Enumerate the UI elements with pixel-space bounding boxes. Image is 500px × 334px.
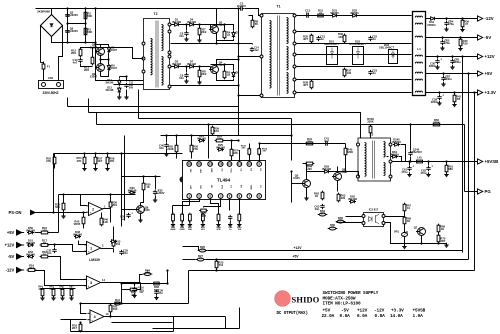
- capacitor: [316, 36, 320, 41]
- svg-text:R471K0: R471K0: [69, 286, 74, 291]
- wire bus +3.3V vertical: [474, 93, 476, 271]
- ground: [440, 46, 444, 50]
- transistor Q6: [334, 173, 342, 181]
- junction: [94, 152, 96, 154]
- diode: [351, 200, 355, 203]
- junction: [445, 17, 447, 19]
- wire to gnd r: [439, 243, 447, 245]
- wire drv top: [171, 24, 211, 26]
- wire C61 top: [409, 162, 411, 166]
- resistor R37: [343, 69, 346, 76]
- wire rail -12V: [297, 15, 412, 17]
- resistor R70: [437, 235, 440, 242]
- output +12V: [478, 54, 483, 59]
- wire C31 top: [452, 57, 454, 59]
- resistor R59: [211, 127, 214, 134]
- ground: [435, 65, 439, 69]
- comparator 1: [87, 242, 101, 255]
- wire R49 gnd: [182, 221, 184, 223]
- ground: [180, 222, 184, 226]
- wire to primary switch: [95, 9, 97, 43]
- wire in4: [48, 257, 76, 280]
- svg-text:-12V: -12V: [485, 16, 494, 21]
- svg-text:R36100: R36100: [338, 32, 343, 39]
- wire C25 top: [442, 38, 444, 40]
- junction: [79, 321, 81, 323]
- wire comp1 in-: [79, 241, 87, 245]
- wire rail 5a: [297, 66, 412, 68]
- wire R69-R70: [438, 232, 440, 236]
- wire comp4 in-: [81, 304, 87, 314]
- diode: [29, 255, 33, 258]
- svg-text:R704R7: R704R7: [440, 237, 445, 244]
- wire R23 top: [216, 260, 218, 262]
- wire R58 gnd: [107, 164, 109, 167]
- wire Q8 coll: [140, 203, 142, 207]
- junction: [142, 175, 144, 177]
- svg-text:R1322K: R1322K: [217, 134, 222, 141]
- svg-text:C24470u: C24470u: [448, 20, 454, 27]
- diode: [325, 170, 329, 173]
- svg-text:R63300: R63300: [340, 194, 345, 201]
- junction: [66, 41, 68, 43]
- resistor R5: [223, 71, 226, 78]
- wire R47 top: [71, 289, 73, 290]
- svg-text:R33510: R33510: [115, 240, 120, 247]
- resistor R65: [337, 220, 343, 223]
- wire bottom run2: [112, 322, 173, 324]
- wire R57 top: [95, 154, 97, 158]
- wire pin9 stub: [259, 155, 261, 162]
- junction: [62, 193, 64, 195]
- wire Q8 em: [140, 213, 142, 219]
- wire emitter rail top: [171, 43, 239, 45]
- resistor R66: [154, 282, 160, 285]
- wire to Q1: [96, 44, 101, 46]
- resistor: [172, 214, 175, 221]
- wire R54 top: [84, 154, 86, 158]
- capacitor: [119, 250, 123, 255]
- wire R56 top: [191, 136, 193, 146]
- wire v173 down: [173, 317, 175, 332]
- svg-text:R41220: R41220: [307, 137, 312, 144]
- wire R45 gnd: [172, 221, 174, 223]
- junction: [427, 160, 429, 162]
- wire out +5V: [426, 73, 478, 75]
- diode: [118, 81, 121, 85]
- svg-text:PG: PG: [485, 189, 492, 194]
- wire out +3.3V: [426, 92, 478, 94]
- svg-text:-12V: -12V: [374, 309, 385, 314]
- wire standby mid: [307, 172, 359, 177]
- output +5V: [478, 71, 483, 76]
- wire rail 5b: [297, 79, 412, 81]
- wire q8 top: [122, 176, 161, 178]
- resistor R13: [216, 139, 223, 142]
- svg-text:1: 1: [90, 247, 92, 251]
- svg-text:-12V: -12V: [6, 267, 15, 272]
- svg-text:+5V: +5V: [7, 230, 15, 235]
- diode: [107, 66, 110, 70]
- ground: [105, 166, 109, 170]
- capacitor: [437, 95, 441, 100]
- ground: [437, 101, 441, 105]
- junction: [473, 91, 475, 93]
- capacitor: [450, 59, 454, 64]
- wire R50 gnd: [189, 221, 191, 223]
- resistor R25: [201, 209, 207, 212]
- resistor R17: [41, 244, 48, 247]
- wire Q3 em rail: [216, 34, 218, 44]
- wire R57 gnd: [95, 164, 97, 167]
- wire res row top: [41, 288, 76, 290]
- svg-text:C4010n: C4010n: [159, 144, 164, 151]
- junction: [237, 84, 239, 86]
- wire Q4 base: [210, 67, 211, 70]
- resistor R13: [91, 57, 94, 64]
- wire v121b: [121, 284, 123, 304]
- svg-text:R193K3: R193K3: [29, 263, 34, 270]
- wire standby v0: [291, 136, 293, 161]
- svg-text:R45220K: R45220K: [347, 148, 353, 155]
- junction: [107, 58, 109, 60]
- resistor R46: [100, 218, 103, 225]
- svg-text:T2: T2: [154, 12, 158, 16]
- ground: [184, 37, 188, 41]
- resistor R19: [28, 269, 35, 272]
- wire T2 mid tap: [96, 48, 144, 59]
- wire emitter rail bot: [171, 85, 239, 87]
- diode: [395, 143, 399, 146]
- svg-text:C414n7: C414n7: [324, 137, 329, 144]
- ground: [402, 244, 406, 248]
- capacitor: [228, 215, 232, 220]
- svg-text:14.0A: 14.0A: [390, 314, 403, 319]
- output +5VSB: [478, 159, 483, 164]
- junction: [438, 91, 440, 93]
- wire R27 in: [183, 259, 196, 261]
- transformer T2: [144, 19, 170, 90]
- wire C40 bot: [166, 149, 168, 153]
- wire bridge top: [51, 9, 53, 15]
- svg-text:0.6A: 0.6A: [340, 314, 351, 319]
- svg-text:DC OTPUT(MAX): DC OTPUT(MAX): [277, 311, 308, 316]
- junction: [230, 139, 232, 141]
- wire out -12V: [426, 18, 478, 20]
- junction: [420, 242, 422, 244]
- wire bridge right down: [59, 26, 63, 81]
- svg-text:R591K0: R591K0: [214, 127, 219, 134]
- resistor R49: [130, 288, 137, 291]
- ground: [164, 152, 168, 156]
- transistor Q4: [211, 66, 219, 74]
- capacitor C6: [65, 29, 69, 34]
- bridge rectifier BD1: [41, 15, 63, 37]
- capacitor: [435, 59, 439, 64]
- wire bus +12V vertical: [462, 57, 464, 253]
- wire fb row: [81, 303, 189, 305]
- capacitor: [132, 287, 136, 292]
- wire R68-VR1: [404, 224, 406, 233]
- wire C40 gnd: [230, 221, 232, 223]
- ground: [124, 95, 128, 99]
- transistor Q1: [97, 48, 105, 56]
- resistor R60: [433, 123, 440, 126]
- wire d-r row: [223, 140, 239, 142]
- wire top bus right: [96, 8, 239, 10]
- resistor R3: [84, 28, 87, 35]
- wire in2: [48, 232, 59, 234]
- wire v167: [167, 271, 169, 284]
- wire vcc drop to IC: [208, 125, 210, 159]
- junction: [436, 55, 438, 57]
- rectifier D21 SBL3040CT: [327, 47, 338, 65]
- wire R48 top: [62, 289, 64, 290]
- wire comp2 out: [103, 208, 111, 210]
- wire rail 12a: [297, 43, 412, 45]
- resistor R67: [403, 204, 406, 211]
- resistor R58: [106, 157, 109, 164]
- ground: [441, 82, 445, 86]
- wire D8 top: [225, 65, 234, 71]
- svg-text:OC: OC: [221, 169, 223, 173]
- svg-text:R362K0: R362K0: [112, 201, 117, 208]
- resistor: [238, 214, 241, 221]
- junction: [185, 65, 187, 67]
- junction: [290, 170, 292, 172]
- wire standby v up: [291, 119, 293, 136]
- resistor R44: [306, 162, 313, 165]
- wire C28 top: [439, 93, 441, 95]
- capacitor: [184, 73, 188, 78]
- diode: [232, 73, 235, 77]
- ground: [197, 80, 201, 84]
- capacitor: [440, 40, 444, 45]
- output -12V: [478, 16, 483, 21]
- wire comp4 out: [105, 316, 226, 318]
- junction: [125, 75, 127, 77]
- capacitor: [124, 83, 128, 88]
- wire r36 top: [110, 195, 112, 203]
- diode: [353, 14, 357, 17]
- transistor Q8: [137, 206, 145, 214]
- ground: [171, 222, 175, 226]
- wire R30 gnd: [239, 221, 241, 223]
- junction: [290, 134, 292, 136]
- junction: [237, 139, 239, 141]
- inductor L1: [413, 12, 426, 96]
- svg-text:+5VSB: +5VSB: [485, 159, 499, 164]
- svg-text:R60330K: R60330K: [433, 118, 439, 125]
- junction: [106, 152, 108, 154]
- wire main vertical: [238, 9, 240, 136]
- wire band1 left v: [67, 98, 69, 107]
- ground: [51, 296, 55, 300]
- resistor R42: [453, 95, 456, 102]
- junction: [99, 58, 101, 60]
- wire R43 top: [53, 289, 55, 290]
- wire ps-on vertical: [53, 154, 55, 213]
- wire row drop: [182, 206, 184, 215]
- svg-text:+3.3V: +3.3V: [485, 90, 496, 95]
- resistor R31: [318, 14, 324, 17]
- junction: [441, 36, 443, 38]
- svg-text:IC3 817: IC3 817: [369, 207, 379, 211]
- svg-text:R5447K: R5447K: [77, 156, 82, 163]
- output -5V: [478, 35, 483, 40]
- wire pin11 stub: [239, 151, 240, 162]
- wire stub: [114, 84, 116, 86]
- junction: [207, 123, 209, 125]
- wire D5 bottom: [101, 53, 109, 60]
- transistor Q5: [303, 180, 311, 188]
- wire Q6 coll: [337, 167, 339, 173]
- svg-text:C3647n: C3647n: [158, 289, 163, 296]
- junction: [459, 36, 461, 38]
- wire R548 bot: [370, 133, 372, 139]
- ground: [228, 222, 232, 226]
- wire opto coll: [385, 216, 405, 218]
- diode: [29, 231, 33, 234]
- wire ps-on to comp: [36, 212, 87, 214]
- ground: [452, 102, 456, 106]
- capacitor: [444, 21, 448, 26]
- wire band4 left v: [96, 113, 98, 125]
- capacitor C5: [65, 13, 69, 18]
- wire Q8 base: [122, 209, 136, 211]
- svg-text:C5110n: C5110n: [47, 249, 52, 256]
- resistor: [217, 214, 220, 221]
- svg-text:R354R7: R354R7: [303, 35, 308, 42]
- capacitor: [408, 151, 412, 156]
- wire in1: [35, 232, 42, 234]
- svg-text:C25470u: C25470u: [444, 39, 450, 46]
- wire comp3 in+: [71, 285, 87, 287]
- wire R35 bot: [63, 210, 65, 215]
- svg-text:VCC: VCC: [230, 169, 232, 174]
- resistor R51: [109, 305, 112, 312]
- resistor: [52, 289, 55, 296]
- junction: [120, 302, 122, 304]
- resistor R2: [84, 12, 87, 19]
- wire R7 top: [199, 25, 201, 29]
- diode: [112, 240, 116, 243]
- wire +5V run: [206, 259, 469, 261]
- resistor R26: [199, 249, 205, 252]
- wire r33 up: [113, 227, 115, 241]
- transformer T3: [358, 138, 391, 181]
- resistor R4: [223, 31, 226, 38]
- junction: [451, 55, 453, 57]
- svg-text:R122R2: R122R2: [71, 49, 76, 56]
- wire R8 top: [249, 16, 253, 21]
- junction: [237, 42, 239, 44]
- wire D6 top: [108, 60, 110, 65]
- junction: [237, 58, 239, 60]
- wire C11 bot: [126, 90, 128, 96]
- wire R55 bot: [176, 152, 178, 159]
- svg-text:R65300: R65300: [338, 216, 343, 223]
- wire Q1 collector: [100, 45, 102, 49]
- wire D5 top: [101, 45, 109, 47]
- wire bottom run3: [153, 328, 240, 330]
- wire D8 bot: [225, 79, 234, 81]
- wire pin3 down: [211, 199, 219, 215]
- resistor R27: [197, 258, 203, 261]
- wire C11 top: [126, 77, 128, 82]
- resistor R7: [198, 28, 201, 35]
- junction: [66, 22, 68, 24]
- wire R69 bot: [438, 225, 440, 226]
- svg-text:R644R7: R644R7: [320, 209, 325, 216]
- wire in5: [35, 271, 71, 286]
- wire +5VSB rail: [393, 161, 478, 163]
- resistor R64: [144, 273, 150, 276]
- wire pin10 up: [249, 144, 251, 149]
- junction: [84, 7, 86, 9]
- wire C3 to T1: [245, 9, 262, 16]
- resistor R68: [403, 217, 406, 224]
- resistor R39: [461, 20, 464, 27]
- svg-text:R522K7: R522K7: [72, 324, 77, 331]
- capacitor: [407, 166, 411, 171]
- ground: [407, 172, 411, 176]
- resistor R18: [41, 255, 48, 258]
- resistor R62: [321, 192, 324, 199]
- junction: [408, 160, 410, 162]
- wire pin4: [204, 199, 221, 207]
- junction: [53, 243, 55, 245]
- ground: [60, 296, 64, 300]
- wire R548 top: [370, 125, 372, 127]
- ground: [444, 172, 448, 176]
- svg-text:C3510n: C3510n: [123, 249, 128, 256]
- diode: [219, 148, 223, 151]
- wire comp3 in-: [76, 279, 87, 281]
- wire R26 in: [183, 247, 199, 251]
- junction: [258, 142, 260, 144]
- resistor R53: [53, 157, 56, 164]
- capacitor: [426, 166, 430, 171]
- wire bottom run: [71, 331, 174, 333]
- resistor R548: [369, 126, 372, 133]
- connector CN1: [39, 81, 64, 89]
- IC U1 TL494: [183, 161, 266, 200]
- wire C40 top: [166, 136, 168, 143]
- junction: [94, 46, 96, 48]
- resistor R52: [79, 324, 82, 331]
- wire out -5V: [426, 37, 478, 39]
- svg-text:2KBP06M: 2KBP06M: [37, 10, 50, 14]
- wire band4 vcc bus: [97, 124, 465, 126]
- junction: [109, 193, 111, 195]
- wire R53 bot: [54, 164, 56, 169]
- svg-text:R49470: R49470: [131, 290, 136, 297]
- capacitor: [164, 143, 168, 148]
- ground: [444, 27, 448, 31]
- resistor R61: [445, 165, 448, 172]
- wire PG vertical: [464, 125, 466, 192]
- svg-text:DTC: DTC: [221, 185, 223, 190]
- wire band2 left v: [88, 99, 90, 113]
- wire Q6 em: [337, 181, 339, 192]
- svg-text:R132R2: R132R2: [84, 66, 89, 73]
- wire C16 top: [134, 284, 136, 287]
- wire bleeder column: [85, 9, 87, 43]
- wire R56 bot: [191, 152, 193, 159]
- svg-text:R3556K: R3556K: [55, 203, 60, 210]
- wire D13 bot: [119, 94, 121, 96]
